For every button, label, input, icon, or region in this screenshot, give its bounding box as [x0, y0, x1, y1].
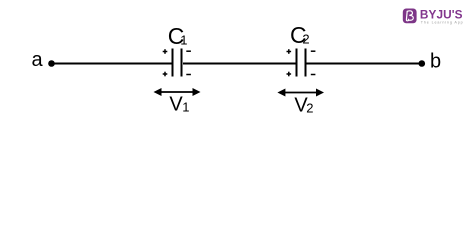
svg-text:2: 2	[306, 100, 313, 115]
svg-text:The Learning App: The Learning App	[421, 20, 464, 24]
svg-text:1: 1	[180, 32, 187, 47]
svg-text:1: 1	[182, 100, 189, 115]
svg-text:2: 2	[302, 32, 309, 47]
svg-text:b: b	[430, 51, 441, 73]
svg-text:a: a	[32, 49, 44, 71]
